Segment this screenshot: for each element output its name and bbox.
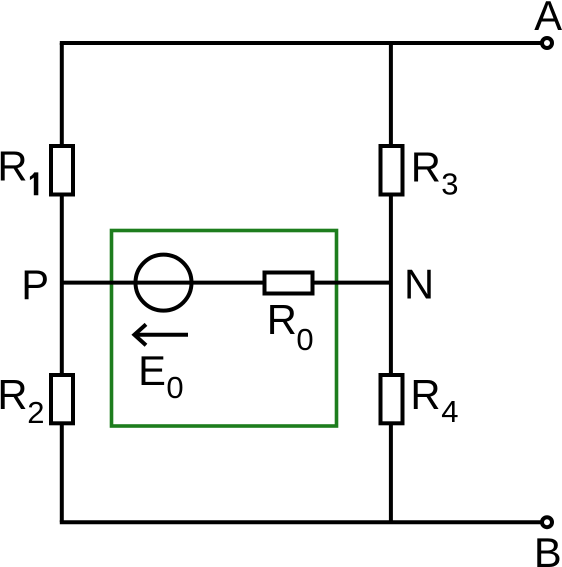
- svg-text:E: E: [138, 347, 166, 394]
- svg-text:0: 0: [166, 370, 183, 405]
- svg-text:R: R: [0, 142, 27, 189]
- svg-text:N: N: [404, 261, 434, 308]
- svg-text:B: B: [534, 529, 562, 567]
- svg-text:3: 3: [441, 167, 458, 202]
- svg-text:A: A: [534, 0, 562, 39]
- svg-text:P: P: [21, 261, 49, 308]
- svg-text:4: 4: [441, 394, 458, 429]
- svg-text:R: R: [410, 371, 440, 418]
- svg-text:R: R: [267, 296, 297, 343]
- svg-text:2: 2: [27, 395, 44, 430]
- svg-text:R: R: [411, 143, 441, 190]
- svg-text:0: 0: [296, 322, 313, 357]
- svg-text:R: R: [0, 371, 27, 418]
